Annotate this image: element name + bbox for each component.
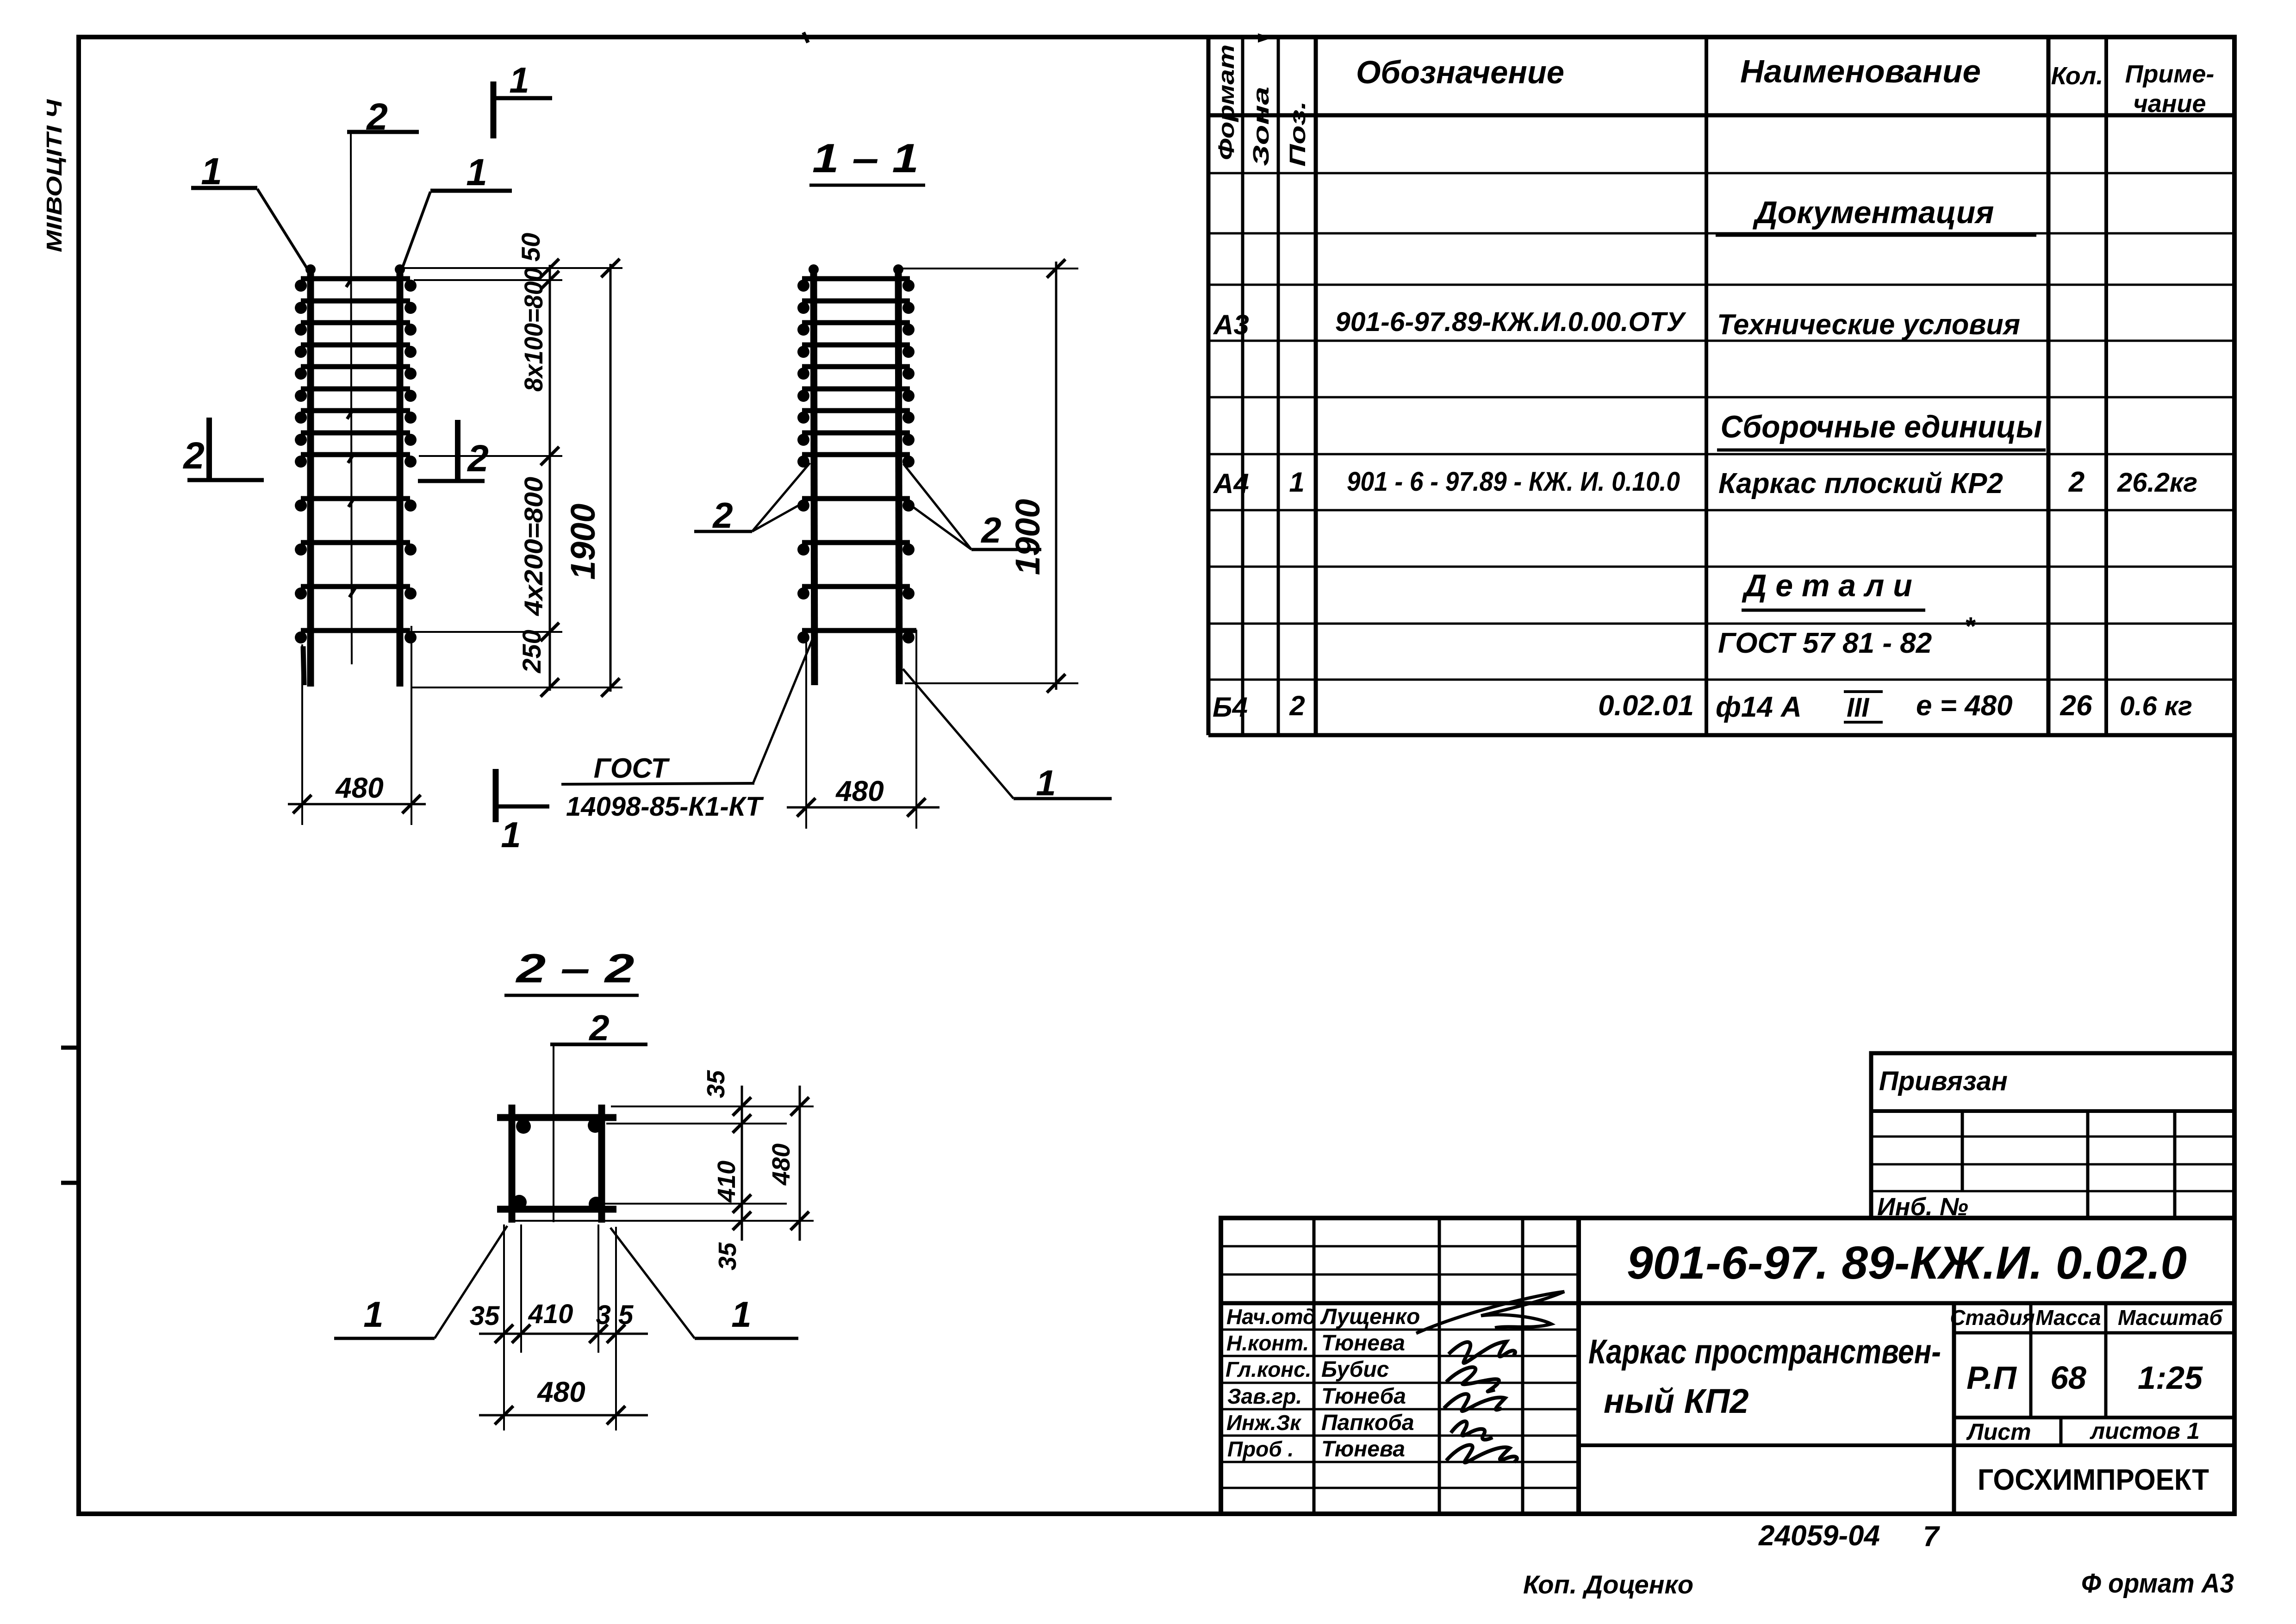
chain slash ticks right (section 2-2): [733, 1097, 751, 1230]
svg-text:1: 1: [466, 151, 487, 194]
section heading Sborochnye edinicy: [1717, 409, 2046, 450]
longitudinal bar right (view 1): [397, 266, 404, 687]
svg-text:Лист: Лист: [1966, 1419, 2031, 1445]
section flag 2 mid-left (view 1): [182, 418, 264, 480]
svg-text:35: 35: [702, 1070, 730, 1098]
bar end blobs top (view 1): [305, 264, 405, 275]
dimension line 1900 (view 1): [610, 264, 612, 692]
svg-text:ный КП2: ный КП2: [1604, 1382, 1749, 1420]
480 slash ticks (view 1-1): [797, 798, 926, 817]
longitudinal bar left (view 1): [307, 266, 314, 687]
svg-text:А4: А4: [1213, 468, 1249, 499]
extension lines 480 (view 1-1): [806, 630, 916, 829]
svg-text:Документация: Документация: [1753, 195, 1994, 230]
svg-text:2 – 2: 2 – 2: [515, 945, 635, 991]
leader 1 bottom-right (view 1-1): [903, 669, 1112, 803]
svg-text:1900: 1900: [564, 504, 602, 580]
svg-text:4х200=800: 4х200=800: [519, 477, 548, 616]
svg-text:26.2кг: 26.2кг: [2117, 468, 2197, 498]
svg-text:2: 2: [980, 510, 1001, 550]
svg-text:2: 2: [2068, 466, 2084, 498]
svg-text:8х100=800: 8х100=800: [519, 268, 548, 392]
archive number 24059-04 7: [1758, 1520, 1940, 1553]
svg-text:Инж.Зк: Инж.Зк: [1226, 1411, 1302, 1435]
svg-text:1900: 1900: [1008, 499, 1047, 575]
svg-text:901 - 6 - 97.89 - КЖ. И. 0.10.: 901 - 6 - 97.89 - КЖ. И. 0.10.0: [1347, 467, 1680, 497]
1900 slash ticks (view 1-1): [1047, 259, 1065, 693]
leader 2 right (view 1-1): [903, 464, 1041, 550]
section mark 1 top-right corner: [493, 60, 552, 138]
longitudinal bar right (view 1-1): [898, 266, 899, 684]
transverse rungs (view 1-1): [802, 279, 916, 631]
dimension line 1900 (view 1-1): [1055, 262, 1058, 690]
extension lines right (section 2-2): [511, 1106, 814, 1221]
dimension chain 35/410/35 vertical (section 2-2): [741, 1086, 743, 1241]
svg-text:Коп. Доценко: Коп. Доценко: [1523, 1570, 1693, 1599]
svg-text:Технические условия: Технические условия: [1717, 309, 2020, 341]
svg-text:480: 480: [767, 1143, 795, 1186]
svg-text:1: 1: [363, 1294, 383, 1335]
svg-text:2: 2: [588, 1007, 609, 1048]
svg-text:68: 68: [2050, 1360, 2086, 1396]
rung end hooks left (view 1): [295, 280, 307, 643]
extension lines for 480 (view 1): [302, 626, 411, 825]
signature nach.otd: [1416, 1292, 1564, 1333]
svg-text:*: *: [1965, 612, 1976, 641]
svg-text:Гл.конс.: Гл.конс.: [1226, 1357, 1311, 1381]
480 slash ticks bottom: [495, 1406, 625, 1424]
svg-text:Зона: Зона: [1249, 87, 1274, 166]
dimension chain line (view 1 spacings): [549, 265, 551, 691]
svg-text:1:25: 1:25: [2138, 1360, 2203, 1396]
svg-text:Лущенко: Лущенко: [1320, 1305, 1420, 1329]
spec table grid: [1208, 37, 2234, 735]
svg-text:Обозначение: Обозначение: [1356, 54, 1564, 90]
rung end hooks right (view 1): [404, 280, 417, 643]
signature zav.gr: [1444, 1394, 1505, 1411]
svg-text:листов 1: листов 1: [2090, 1418, 2200, 1444]
centerline chevrons: [346, 277, 356, 597]
header label Primechanie: [2125, 60, 2215, 118]
svg-text:1: 1: [1289, 467, 1304, 498]
rung end hooks right (view 1-1): [902, 280, 915, 643]
svg-text:35: 35: [470, 1301, 500, 1331]
stirrup top leg: [497, 1114, 616, 1121]
svg-text:Нач.отд: Нач.отд: [1226, 1305, 1316, 1329]
bar end blobs top (view 1-1): [809, 264, 903, 275]
svg-text:Бубис: Бубис: [1321, 1357, 1389, 1382]
svg-text:3 5: 3 5: [596, 1300, 634, 1330]
svg-text:МІІВОЦІТІ Ч: МІІВОЦІТІ Ч: [42, 99, 66, 252]
row B4 name phi14 AIII e=480: [1716, 690, 2013, 723]
svg-text:Н.конт.: Н.конт.: [1226, 1331, 1309, 1355]
svg-text:Наименование: Наименование: [1740, 53, 1981, 89]
leader flag 1 top-right (view 1): [399, 151, 512, 276]
svg-text:Б4: Б4: [1213, 692, 1248, 723]
fold mark top 1: [803, 32, 808, 43]
1900 slash ticks (view 1): [601, 259, 620, 697]
weld note GOST 14098 with leader: [561, 637, 814, 822]
svg-text:14098-85-К1-КТ: 14098-85-К1-КТ: [566, 792, 764, 822]
section flag 2 top (view 1): [347, 96, 419, 138]
svg-text:Приме-: Приме-: [2125, 60, 2215, 88]
svg-text:III: III: [1847, 693, 1870, 723]
extension lines right of view 1: [404, 268, 622, 687]
svg-text:Кол.: Кол.: [2051, 62, 2103, 90]
leader 1 left (section 2-2): [334, 1226, 507, 1338]
svg-text:1: 1: [731, 1294, 751, 1335]
section heading Detali: [1742, 568, 1925, 610]
leader 1 right (section 2-2): [610, 1228, 798, 1338]
svg-text:7: 7: [1923, 1521, 1940, 1553]
longitudinal bar left (view 1-1): [814, 266, 815, 685]
svg-text:480: 480: [835, 775, 884, 807]
dimension line 480 bottom (section 2-2): [479, 1414, 648, 1417]
svg-text:0.6 кг: 0.6 кг: [2120, 691, 2192, 721]
leader flag 1 top-left (view 1): [191, 150, 311, 275]
svg-text:410: 410: [713, 1161, 740, 1203]
svg-text:Сборочные единицы: Сборочные единицы: [1721, 409, 2042, 444]
fold tick left upper: [61, 1046, 81, 1050]
svg-text:50: 50: [516, 233, 545, 262]
dimension line 480 (view 1): [288, 803, 426, 806]
svg-text:Папкоба: Папкоба: [1321, 1411, 1414, 1435]
svg-text:1: 1: [509, 60, 529, 100]
svg-text:ГОСТ 57 81 - 82: ГОСТ 57 81 - 82: [1718, 627, 1932, 659]
svg-text:Привязан: Привязан: [1879, 1066, 2008, 1096]
svg-text:Зав.гр.: Зав.гр.: [1227, 1384, 1302, 1408]
stirrup left leg: [509, 1105, 516, 1223]
signature gl.kons: [1446, 1367, 1499, 1391]
svg-text:Р.П: Р.П: [1966, 1360, 2017, 1396]
view title 1-1: [809, 135, 925, 185]
svg-text:ГОСХИМПРОЕКТ: ГОСХИМПРОЕКТ: [1978, 1463, 2209, 1496]
section heading Dokumentaciya: [1716, 195, 2036, 235]
svg-text:Ф ормат А3: Ф ормат А3: [2081, 1568, 2234, 1599]
svg-text:2: 2: [467, 437, 489, 480]
svg-text:0.02.01: 0.02.01: [1598, 690, 1694, 722]
extension lines 1900 (view 1-1): [902, 269, 1078, 683]
title block grid: [1221, 1218, 2234, 1514]
svg-text:е = 480: е = 480: [1916, 690, 2013, 722]
svg-text:чание: чание: [2133, 90, 2206, 118]
svg-text:26: 26: [2060, 690, 2092, 722]
dimension chain 35/410/35 bottom (section 2-2): [479, 1333, 648, 1335]
svg-text:480: 480: [335, 772, 383, 804]
svg-text:Поз.: Поз.: [1286, 101, 1310, 167]
section mark 1 bottom (view 1): [496, 769, 549, 855]
svg-text:2: 2: [712, 495, 733, 536]
svg-text:Каркас пространствен-: Каркас пространствен-: [1588, 1332, 1941, 1371]
svg-text:Проб .: Проб .: [1227, 1437, 1294, 1461]
svg-text:35: 35: [714, 1242, 741, 1270]
stirrup bottom leg: [497, 1206, 616, 1213]
svg-text:410: 410: [528, 1299, 573, 1329]
row GOST 5781-82: [1718, 612, 1976, 659]
fold mark top 2: [1258, 33, 1272, 43]
fold tick left lower: [61, 1181, 81, 1185]
svg-text:ф14 А: ф14 А: [1716, 691, 1802, 723]
dimension line 480 (view 1-1): [787, 806, 940, 809]
section flag 2 top (section 2-2): [550, 1007, 647, 1048]
svg-text:250: 250: [517, 630, 546, 673]
svg-text:480: 480: [536, 1376, 585, 1408]
svg-text:Тюнеба: Тюнеба: [1321, 1384, 1406, 1409]
svg-text:Масса: Масса: [2035, 1305, 2101, 1330]
svg-text:1 – 1: 1 – 1: [812, 135, 919, 181]
main bars (dots) in section: [512, 1118, 604, 1212]
dimension line 480 vertical (section 2-2): [799, 1086, 801, 1241]
svg-text:ГОСТ: ГОСТ: [594, 753, 670, 784]
signature n.kont: [1449, 1342, 1515, 1363]
svg-text:Масштаб: Масштаб: [2118, 1305, 2223, 1330]
svg-text:Д е т а л и: Д е т а л и: [1742, 568, 1912, 603]
svg-text:Тюнева: Тюнева: [1321, 1331, 1405, 1355]
svg-text:А3: А3: [1213, 309, 1249, 340]
stirrup right leg: [598, 1105, 605, 1223]
svg-text:Тюнева: Тюнева: [1321, 1437, 1405, 1462]
rung end hooks left (view 1-1): [797, 280, 809, 643]
svg-text:901-6-97. 89-КЖ.И. 0.02.0: 901-6-97. 89-КЖ.И. 0.02.0: [1627, 1237, 2187, 1289]
svg-text:2: 2: [1289, 690, 1305, 721]
svg-text:24059-04: 24059-04: [1758, 1520, 1880, 1552]
svg-text:Стадия: Стадия: [1950, 1305, 2035, 1330]
svg-text:Формат: Формат: [1214, 44, 1239, 160]
centerline (view 1): [351, 133, 352, 664]
svg-text:2: 2: [182, 435, 205, 477]
svg-text:Каркас плоский КР2: Каркас плоский КР2: [1718, 468, 2003, 500]
svg-text:901-6-97.89-КЖ.И.0.00.ОТУ: 901-6-97.89-КЖ.И.0.00.ОТУ: [1335, 307, 1686, 337]
signature prov: [1446, 1445, 1517, 1462]
leader 2 left (view 1-1): [694, 463, 810, 536]
signature inzh.3k: [1451, 1421, 1493, 1440]
transverse rungs (view 1): [301, 279, 410, 631]
svg-text:1: 1: [501, 814, 521, 855]
privyazan block grid: [1871, 1053, 2234, 1218]
section line 2 through stirrup: [553, 1044, 554, 1222]
480 slash ticks (view 1): [293, 795, 421, 813]
longitudinal bar left hook end (view 1): [303, 646, 304, 685]
chain slash ticks: [541, 259, 559, 697]
view title 2-2: [504, 945, 639, 995]
480 slash ticks vertical (section 2-2): [790, 1097, 809, 1230]
extension lines bottom (section 2-2): [504, 1224, 616, 1430]
chain slash ticks bottom: [495, 1324, 625, 1343]
section flag 2 mid-right (view 1): [418, 420, 489, 481]
